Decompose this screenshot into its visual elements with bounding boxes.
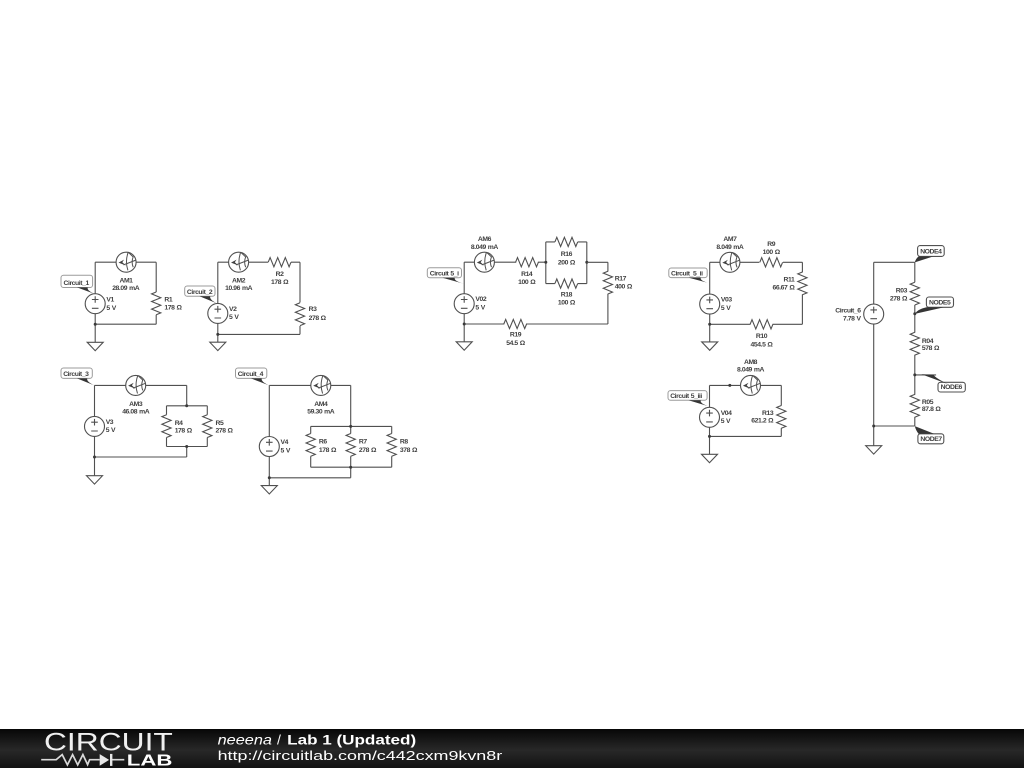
label V04 5 V: [721, 410, 732, 425]
wire parallel rails C4: [311, 426, 392, 467]
resistor R7: [346, 434, 355, 457]
ground C5i: [456, 342, 472, 350]
voltage source V1: [85, 294, 105, 314]
label R1 178 ohm: [164, 296, 182, 311]
svg-text:R18: R18: [561, 292, 573, 299]
svg-text:V3: V3: [106, 419, 114, 426]
voltage source V3: [85, 416, 105, 436]
svg-text:http://circuitlab.com/c442cxm9: http://circuitlab.com/c442cxm9kvn8r: [218, 748, 503, 763]
resistor R2: [268, 258, 291, 267]
ground C4: [261, 486, 277, 494]
svg-text:28.09 mA: 28.09 mA: [112, 285, 140, 292]
svg-text:R9: R9: [767, 241, 775, 248]
svg-text:R4: R4: [175, 420, 183, 427]
svg-text:54.5 Ω: 54.5 Ω: [506, 340, 526, 347]
svg-text:87.8 Ω: 87.8 Ω: [922, 406, 942, 413]
ammeter AM7: [720, 252, 740, 272]
wire right C5ii: [801, 262, 803, 324]
svg-text:AM6: AM6: [478, 236, 492, 243]
junction C5ii: [708, 323, 711, 326]
label R19 54.5 ohm: [506, 332, 526, 347]
junction NODE5: [913, 312, 916, 315]
svg-text:100 Ω: 100 Ω: [558, 299, 576, 306]
svg-text:Circuit 5_i: Circuit 5_i: [430, 271, 459, 278]
wire left C4: [268, 385, 270, 436]
junction C3 bottom: [185, 445, 188, 448]
junction C3 top: [185, 404, 188, 407]
wire bottom stem C1: [95, 314, 156, 343]
svg-text:R11: R11: [784, 277, 795, 284]
junction C4 bottom: [349, 466, 352, 469]
resistor R19: [504, 319, 527, 328]
callout NODE7: [915, 426, 944, 444]
callout Circuit_5_ii: [669, 268, 710, 283]
resistor R18: [555, 279, 578, 288]
junction C1: [94, 323, 97, 326]
wire stem C6: [874, 324, 915, 446]
svg-text:Circuit_1: Circuit_1: [64, 280, 90, 287]
wire bottom C2: [218, 333, 300, 335]
label R5 278 ohm: [216, 420, 234, 434]
svg-text:578 Ω: 578 Ω: [922, 345, 940, 352]
wire stem C3: [95, 436, 187, 475]
callout NODE5: [915, 297, 954, 314]
svg-text:8.049 mA: 8.049 mA: [737, 367, 765, 374]
label V2 5 V: [229, 306, 239, 321]
svg-text:AM1: AM1: [119, 278, 133, 285]
svg-text:8.049 mA: 8.049 mA: [471, 244, 499, 251]
resistor R10: [750, 320, 773, 329]
wire top C6: [874, 261, 915, 263]
svg-text:7.78 V: 7.78 V: [843, 316, 862, 323]
voltage source V04: [700, 407, 720, 427]
svg-text:200 Ω: 200 Ω: [558, 259, 576, 266]
svg-text:NODE7: NODE7: [920, 436, 942, 443]
callout Circuit_2: [185, 286, 218, 304]
wire stem C5i: [463, 314, 465, 342]
svg-text:Circuit_2: Circuit_2: [187, 289, 213, 296]
resistor R14: [516, 258, 539, 267]
svg-text:10.96 mA: 10.96 mA: [225, 285, 253, 292]
voltage source V02: [454, 294, 474, 314]
callout Circuit 5_iii: [668, 391, 710, 407]
wire top C1: [95, 261, 156, 263]
voltage source V2: [208, 303, 228, 323]
wire top C2: [218, 261, 300, 263]
label V4 5 V: [281, 439, 291, 454]
svg-text:5 V: 5 V: [281, 447, 291, 454]
label AM7 8.049 mA: [716, 236, 744, 251]
resistor R1: [152, 262, 161, 324]
svg-text:AM8: AM8: [744, 359, 758, 366]
wire top C5i: [464, 261, 546, 263]
resistor R13: [777, 406, 786, 429]
svg-text:V02: V02: [475, 296, 486, 303]
ground C1: [87, 342, 103, 350]
svg-text:NODE5: NODE5: [929, 299, 951, 306]
footer title text: [218, 732, 417, 748]
junction C4 top: [349, 425, 352, 428]
svg-text:R3: R3: [309, 306, 317, 313]
wire top C3: [95, 385, 187, 405]
svg-text:100 Ω: 100 Ω: [518, 279, 536, 286]
resistor R4: [162, 415, 171, 438]
svg-text:V2: V2: [229, 306, 237, 313]
svg-text:R1: R1: [164, 296, 172, 303]
junction C5i left: [544, 261, 547, 264]
label R6 178 ohm: [319, 438, 337, 454]
label AM8 8.049 mA: [737, 359, 765, 374]
svg-text:R17: R17: [615, 276, 627, 283]
callout Circuit_3: [61, 368, 95, 386]
label R8 378 ohm: [400, 438, 418, 454]
label R2 178 ohm: [271, 271, 289, 286]
callout Circuit_1: [61, 275, 95, 294]
wire left C3: [94, 385, 96, 416]
junction C6 left: [872, 425, 875, 428]
wire right C5i: [587, 262, 608, 324]
wire bottom C5iii: [710, 427, 782, 454]
wire bottom C5ii: [710, 323, 803, 325]
svg-text:R03: R03: [896, 287, 908, 294]
label V03 5 V: [721, 297, 732, 312]
logo LAB text: [127, 753, 173, 768]
ground C5iii: [702, 454, 718, 462]
svg-text:100 Ω: 100 Ω: [763, 249, 781, 256]
svg-text:59.30 mA: 59.30 mA: [307, 408, 335, 415]
label R10 454.5 ohm: [751, 333, 774, 348]
svg-text:Circuit_3: Circuit_3: [63, 371, 89, 378]
svg-text:Circuit_4: Circuit_4: [238, 371, 264, 378]
svg-text:NODE4: NODE4: [920, 249, 942, 256]
label AM4 59.30 mA: [307, 401, 335, 416]
svg-text:278 Ω: 278 Ω: [309, 315, 327, 322]
resistor R3: [295, 303, 304, 326]
svg-text:R16: R16: [561, 251, 573, 258]
logo resistor-diode mark: [41, 754, 124, 766]
label R14 100 ohm: [518, 271, 536, 286]
resistor R9: [760, 258, 783, 267]
wire left C5ii: [709, 262, 711, 294]
svg-text:R2: R2: [276, 271, 284, 278]
svg-text:454.5 Ω: 454.5 Ω: [751, 341, 774, 348]
wire bottom C5i: [464, 323, 608, 325]
wire left C2: [217, 262, 219, 303]
junction C5iii bottom: [708, 435, 711, 438]
wire right C2: [299, 262, 301, 334]
resistor R03: [910, 282, 919, 305]
svg-text:278 Ω: 278 Ω: [890, 295, 908, 302]
resistor R11: [798, 272, 807, 295]
ammeter AM8: [741, 375, 761, 395]
svg-text:R04: R04: [922, 338, 934, 345]
callout NODE6: [922, 374, 966, 392]
label R04 578 ohm: [922, 338, 940, 352]
label R13 621.2 ohm: [751, 410, 774, 425]
resistor R5: [203, 415, 212, 438]
ammeter AM4: [311, 375, 331, 395]
svg-text:Circuit 5_iii: Circuit 5_iii: [670, 393, 702, 400]
label R7 278 ohm: [359, 438, 377, 454]
svg-text:V04: V04: [721, 410, 732, 417]
ammeter AM3: [126, 375, 146, 395]
ammeter AM2: [229, 252, 249, 272]
junction C5i right: [585, 261, 588, 264]
label AM2 10.96 mA: [225, 278, 253, 293]
ground C6: [866, 446, 882, 454]
svg-text:R7: R7: [359, 438, 367, 445]
svg-text:LAB: LAB: [127, 753, 173, 768]
footer url text: [218, 748, 503, 763]
wire top C5ii: [710, 261, 803, 263]
svg-text:AM2: AM2: [232, 278, 246, 285]
voltage source V4: [259, 437, 279, 457]
svg-text:5 V: 5 V: [106, 427, 116, 434]
label R03 278 ohm: [890, 287, 908, 302]
junction C5iii top: [728, 384, 731, 387]
svg-text:Circuit_6: Circuit_6: [835, 307, 861, 314]
callout NODE4: [915, 246, 944, 263]
svg-text:AM3: AM3: [129, 401, 143, 408]
svg-text:178 Ω: 178 Ω: [319, 447, 337, 454]
svg-text:278 Ω: 278 Ω: [216, 427, 234, 434]
label R4 178 ohm: [175, 420, 193, 434]
ground C5ii: [702, 342, 718, 350]
svg-text:5 V: 5 V: [229, 314, 239, 321]
wire top C5iii: [710, 384, 782, 386]
svg-text:V1: V1: [106, 296, 114, 303]
wire left C5i: [463, 262, 465, 294]
svg-text:neeena / Lab 1 (Updated): neeena / Lab 1 (Updated): [218, 732, 417, 748]
wire stem C2: [217, 323, 219, 342]
svg-text:5 V: 5 V: [106, 305, 116, 312]
svg-text:5 V: 5 V: [721, 305, 731, 312]
svg-text:8.049 mA: 8.049 mA: [716, 244, 744, 251]
footer background: [0, 729, 1024, 768]
svg-text:378 Ω: 378 Ω: [400, 447, 418, 454]
wire stem C4: [269, 457, 350, 486]
svg-text:R10: R10: [756, 333, 768, 340]
wire left C1: [94, 262, 96, 294]
svg-text:R13: R13: [762, 410, 774, 417]
svg-text:R6: R6: [319, 438, 327, 445]
resistor R04: [910, 332, 919, 355]
wire stem C5ii: [709, 314, 711, 342]
resistor R05: [910, 394, 919, 417]
svg-text:5 V: 5 V: [475, 305, 485, 312]
label V1 5 V: [106, 296, 116, 312]
label R3 278 ohm: [309, 306, 327, 322]
svg-text:Circuit_5_ii: Circuit_5_ii: [671, 271, 703, 278]
ground C2: [210, 342, 226, 350]
ammeter AM1: [116, 252, 136, 272]
wire top C4: [269, 385, 350, 426]
svg-text:66.67 Ω: 66.67 Ω: [772, 285, 795, 292]
label R17 400 ohm: [615, 276, 633, 291]
label AM3 46.08 mA: [122, 401, 150, 416]
callout Circuit 5_i: [427, 268, 464, 284]
junction NODE6: [913, 373, 916, 376]
svg-text:178 Ω: 178 Ω: [271, 279, 289, 286]
resistor R16: [555, 237, 578, 246]
junction C5i bottom: [463, 323, 466, 326]
svg-text:178 Ω: 178 Ω: [175, 427, 193, 434]
svg-text:278 Ω: 278 Ω: [359, 447, 377, 454]
label AM6 8.049 mA: [471, 236, 499, 251]
wire right C5iii: [780, 385, 782, 436]
ground C3: [87, 476, 103, 484]
label R18 100 ohm: [558, 292, 576, 307]
label R11 66.67 ohm: [772, 277, 795, 292]
label R05 87.8 ohm: [922, 399, 942, 413]
label V3 5 V: [106, 419, 116, 434]
logo CIRCUIT text: [44, 729, 173, 757]
svg-text:R5: R5: [216, 420, 224, 427]
svg-text:R8: R8: [400, 438, 408, 445]
junction C3 left: [93, 456, 96, 459]
junction C4 left: [268, 476, 271, 479]
resistor R17: [603, 271, 612, 294]
ammeter AM6: [474, 252, 494, 272]
svg-text:AM7: AM7: [723, 236, 737, 243]
svg-text:R19: R19: [510, 332, 522, 339]
label R9 100 ohm: [763, 241, 781, 256]
svg-text:R14: R14: [521, 271, 533, 278]
wire parallel rails C5i: [546, 242, 587, 284]
svg-text:NODE6: NODE6: [941, 384, 963, 391]
junction C2: [216, 333, 219, 336]
voltage source V03: [700, 294, 720, 314]
label AM1 28.09 mA: [112, 278, 140, 293]
svg-text:5 V: 5 V: [721, 418, 731, 425]
label V02 5 V: [475, 296, 486, 311]
wire left C6: [873, 262, 875, 304]
svg-text:400 Ω: 400 Ω: [615, 283, 633, 290]
voltage source Circuit_6: [864, 304, 884, 324]
callout Circuit_4: [236, 368, 270, 386]
svg-text:46.08 mA: 46.08 mA: [122, 408, 150, 415]
resistor R6: [306, 434, 315, 457]
svg-text:621.2 Ω: 621.2 Ω: [751, 418, 774, 425]
svg-text:V4: V4: [281, 439, 289, 446]
svg-text:R05: R05: [922, 399, 934, 406]
wire right chain C6: [915, 262, 936, 426]
wire left C5iii: [709, 385, 711, 407]
label Circuit_6 7.78 V: [835, 307, 861, 322]
resistor R8: [387, 434, 396, 457]
svg-text:V03: V03: [721, 297, 732, 304]
svg-text:178 Ω: 178 Ω: [164, 305, 182, 312]
label R16 200 ohm: [558, 251, 576, 266]
wire parallel rails C3: [167, 406, 208, 447]
svg-text:AM4: AM4: [314, 401, 328, 408]
